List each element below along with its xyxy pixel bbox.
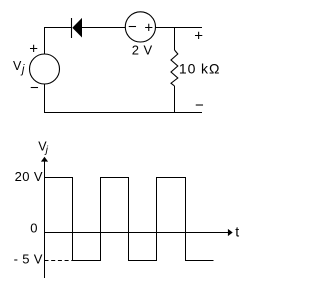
svg-text:0: 0 [30, 221, 37, 236]
svg-text:t: t [235, 224, 239, 240]
svg-text:10 kΩ: 10 kΩ [179, 60, 220, 76]
svg-text:V: V [13, 59, 22, 73]
svg-text:−: − [195, 97, 204, 114]
label Vj (graph axis) [38, 140, 48, 156]
svg-text:- 5 V: - 5 V [14, 252, 43, 267]
wire diode anode to 2V source [82, 27, 126, 29]
wire top-left from Vj source top to diode cathode [45, 28, 72, 55]
label Vj [13, 59, 25, 76]
diode D1 (cathode bar and arrow) [72, 18, 83, 38]
dashed -5V level line [45, 260, 73, 262]
wire junction down to resistor [174, 28, 176, 51]
graph x-axis [45, 229, 233, 236]
svg-text:2 V: 2 V [132, 43, 153, 58]
graph y-axis [41, 157, 48, 278]
svg-text:+: + [29, 41, 38, 58]
voltage source Vj [30, 54, 60, 84]
wire 2V source to output + terminal [155, 27, 202, 29]
svg-text:−: − [30, 79, 39, 96]
waveform square wave Vj [45, 178, 214, 261]
svg-text:20 V: 20 V [15, 169, 43, 184]
svg-text:+: + [144, 20, 153, 37]
dc source V1 (2 V) [125, 12, 155, 42]
wire resistor bottom lead [174, 86, 176, 113]
wire bottom rail [45, 84, 203, 113]
svg-text:+: + [194, 27, 203, 44]
svg-text:−: − [128, 19, 137, 36]
resistor R1 [171, 50, 178, 86]
